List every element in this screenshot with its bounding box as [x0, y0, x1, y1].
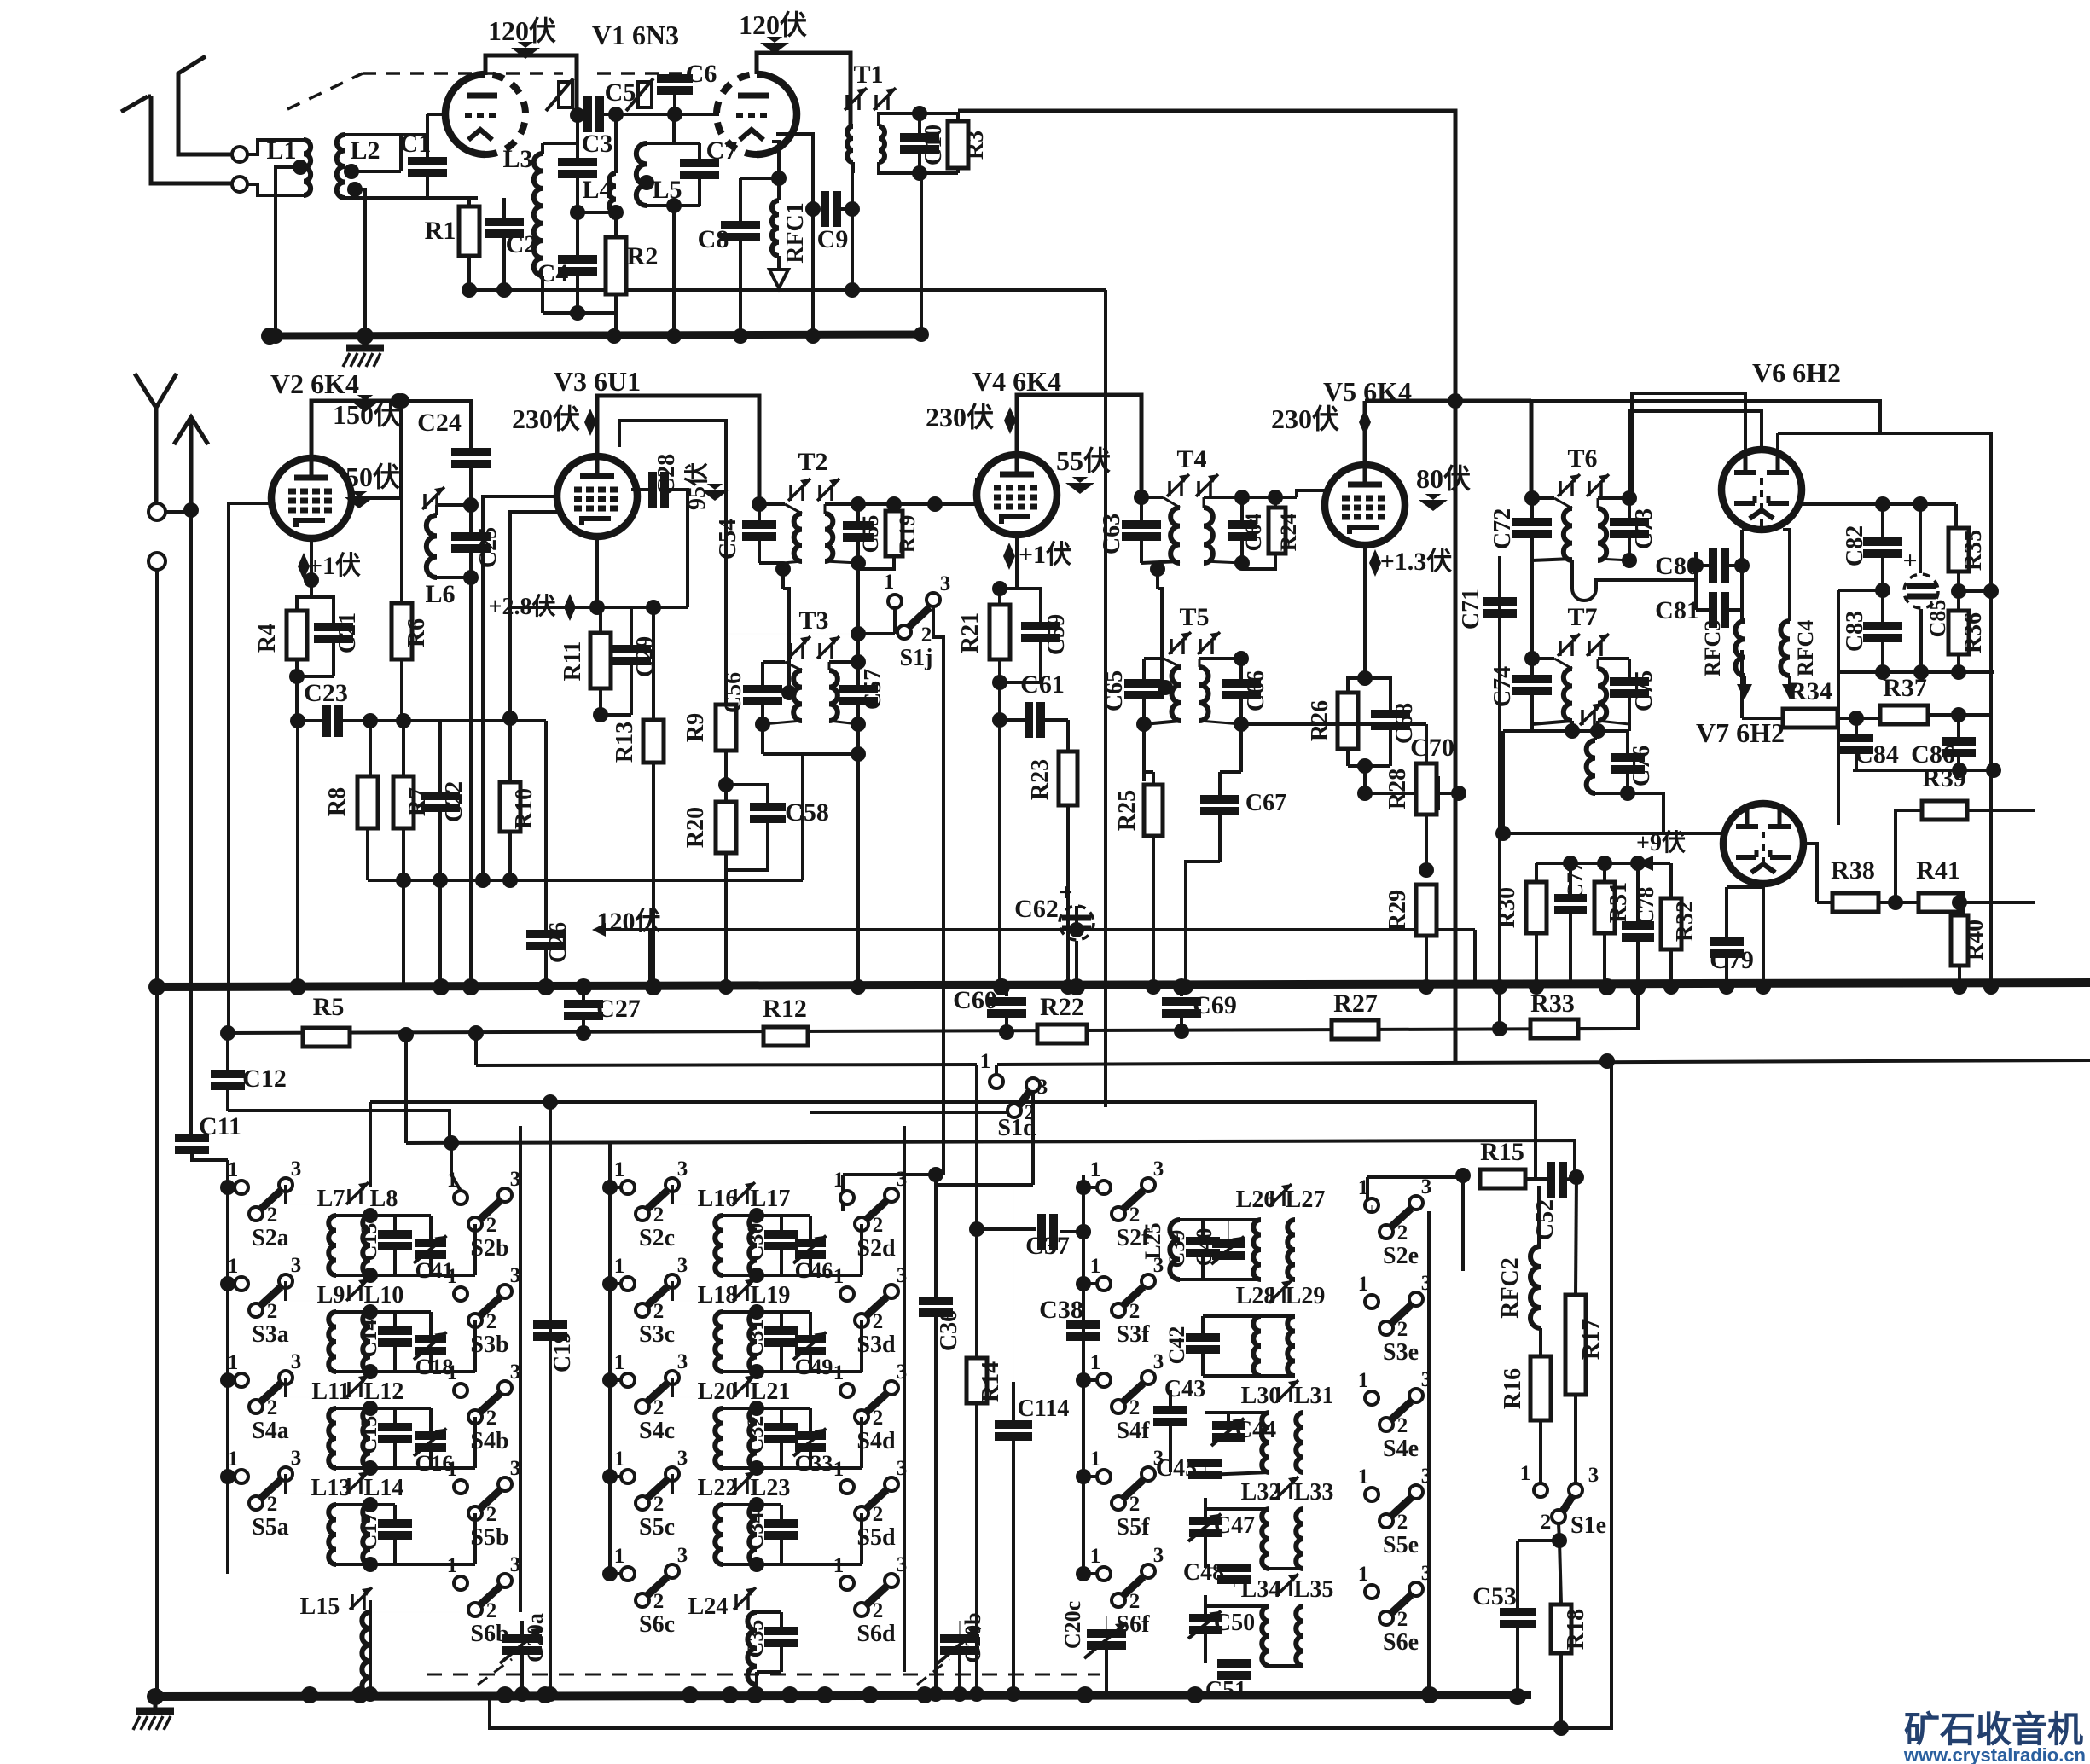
svg-text:C31: C31 — [743, 1320, 768, 1358]
svg-text:C9: C9 — [817, 225, 849, 253]
svg-text:R32: R32 — [1672, 901, 1698, 942]
svg-text:矿石收音机: 矿石收音机 — [1904, 1709, 2083, 1749]
switch S4c — [621, 1373, 635, 1387]
wire R28 column — [1425, 724, 1428, 763]
svg-text:2: 2 — [486, 1214, 497, 1237]
svg-text:R22: R22 — [1040, 993, 1084, 1021]
resistor R16 — [1539, 1328, 1542, 1356]
svg-text:80伏: 80伏 — [1416, 463, 1471, 494]
wire C37 row — [977, 1227, 1036, 1231]
coil L8 — [363, 1216, 370, 1275]
svg-text:2: 2 — [1129, 1590, 1141, 1613]
capacitor C62 electrolytic — [1075, 941, 1078, 987]
svg-text:3: 3 — [291, 1158, 302, 1181]
svg-text:3: 3 — [1037, 1076, 1048, 1099]
wire tank to V7 grid — [1628, 793, 1663, 833]
svg-text:1: 1 — [833, 1554, 845, 1577]
svg-text:R15: R15 — [1480, 1138, 1524, 1166]
svg-text:C20a: C20a — [523, 1613, 548, 1662]
svg-text:L11: L11 — [311, 1378, 350, 1405]
svg-text:S3a: S3a — [252, 1321, 289, 1348]
svg-text:T1: T1 — [853, 61, 883, 89]
svg-text:L7: L7 — [317, 1186, 345, 1212]
svg-text:V6 6H2: V6 6H2 — [1752, 357, 1841, 388]
svg-text:C39: C39 — [1164, 1230, 1189, 1268]
tube V1b 6N3 — [757, 74, 797, 154]
svg-text:T6: T6 — [1567, 444, 1597, 473]
svg-text:3: 3 — [291, 1254, 302, 1277]
wire left block pin bus — [226, 1160, 229, 1574]
T5 capacitor C65 — [1142, 659, 1146, 684]
switch S1j — [858, 632, 895, 635]
capacitor C39 — [1186, 1237, 1220, 1245]
svg-text:R21: R21 — [957, 612, 984, 653]
wire V1b cathode — [772, 142, 779, 178]
svg-text:C81: C81 — [1655, 596, 1699, 624]
capacitor C35 — [757, 1610, 781, 1614]
svg-text:1: 1 — [1358, 1176, 1369, 1199]
wire L2 taps — [355, 189, 365, 336]
capacitor C15 — [370, 1407, 395, 1410]
wire right block right bus — [1427, 1211, 1431, 1694]
coil L17 — [749, 1216, 757, 1275]
capacitor C114 — [1013, 1185, 1014, 1425]
trimmer C20a — [502, 1634, 542, 1643]
capacitor C81 — [1709, 592, 1717, 628]
svg-text:L9: L9 — [317, 1282, 345, 1308]
svg-text:2: 2 — [873, 1214, 884, 1237]
svg-text:2: 2 — [1397, 1511, 1408, 1534]
antenna A1 — [178, 56, 232, 154]
svg-text:L34: L34 — [1241, 1576, 1281, 1603]
capacitor C70 — [1363, 766, 1367, 793]
svg-text:C21: C21 — [334, 612, 361, 653]
resistor R41 — [1919, 893, 1963, 912]
capacitor C2 — [502, 198, 506, 220]
wire y1377 line — [843, 1173, 936, 1176]
svg-text:C64: C64 — [1241, 514, 1266, 552]
svg-text:C20b: C20b — [961, 1612, 985, 1662]
T4 resistor R24 — [1268, 490, 1283, 505]
resistor R23 — [1066, 720, 1070, 751]
svg-text:C1: C1 — [400, 130, 432, 158]
wire T4 sec to V5 grid — [1297, 490, 1325, 497]
coil L14 — [363, 1505, 370, 1564]
svg-text:2: 2 — [1129, 1396, 1141, 1419]
wire T5 bottoms down — [1142, 724, 1146, 781]
svg-text:R13: R13 — [612, 722, 638, 763]
wire V2 cathode — [310, 538, 313, 597]
T5 primary — [1144, 657, 1164, 660]
wire C19 column — [549, 1102, 552, 1694]
switch S3c — [621, 1277, 635, 1291]
trimmer C20c — [1087, 1629, 1126, 1638]
capacitor C34 — [757, 1503, 781, 1506]
svg-text:C49: C49 — [795, 1355, 833, 1379]
svg-text:C62: C62 — [1014, 895, 1059, 923]
svg-text:T4: T4 — [1176, 445, 1206, 473]
wire V4 grid2 — [975, 478, 978, 495]
svg-text:C66: C66 — [1243, 670, 1269, 711]
svg-text:1: 1 — [614, 1255, 625, 1278]
trimmer C49 — [781, 1310, 810, 1314]
svg-text:R36: R36 — [1960, 612, 1987, 653]
svg-text:230伏: 230伏 — [1271, 403, 1339, 434]
svg-text:C50: C50 — [1214, 1610, 1255, 1636]
svg-text:R41: R41 — [1916, 856, 1960, 885]
svg-text:2: 2 — [873, 1310, 884, 1333]
svg-text:1: 1 — [980, 1050, 991, 1073]
svg-text:S5e: S5e — [1383, 1532, 1419, 1558]
svg-text:L32: L32 — [1241, 1479, 1281, 1506]
choke RFC1 — [777, 178, 781, 200]
wire row pins — [284, 1281, 287, 1301]
wire T6 sec top to V6 — [1629, 411, 1762, 498]
svg-text:C70: C70 — [1410, 734, 1454, 762]
svg-text:3: 3 — [677, 1254, 688, 1277]
capacitor C29 — [630, 607, 633, 649]
svg-text:3: 3 — [677, 1350, 688, 1373]
transformer T1 secondary — [879, 126, 885, 162]
bottom ground bus — [155, 1695, 1531, 1697]
wire T7 to V7 column — [1503, 729, 1532, 733]
svg-text:C79: C79 — [1710, 946, 1754, 974]
svg-text:C84: C84 — [1855, 740, 1899, 769]
trimmer C20b — [940, 1634, 979, 1643]
svg-text:50伏: 50伏 — [345, 461, 400, 492]
wire L1 tap to gnd — [276, 167, 300, 336]
capacitor C69 — [1173, 978, 1190, 995]
capacitor C45 — [1188, 1459, 1222, 1467]
svg-text:C3: C3 — [582, 130, 613, 158]
svg-text:R39: R39 — [1922, 764, 1966, 792]
wire R13 column — [646, 600, 661, 615]
AVC line — [228, 1029, 1638, 1033]
svg-text:1: 1 — [833, 1361, 845, 1384]
svg-text:R1: R1 — [425, 217, 456, 245]
jack ring 2 — [148, 553, 165, 570]
svg-text:L18: L18 — [698, 1282, 738, 1308]
svg-text:R14: R14 — [978, 1361, 1004, 1402]
wire cathode return y340 — [469, 288, 1106, 292]
wire R15 row — [1367, 1175, 1463, 1179]
svg-text:R12: R12 — [763, 995, 807, 1023]
svg-text:R2: R2 — [627, 242, 659, 270]
coil L23 — [749, 1505, 757, 1564]
choke RFC4 — [1788, 610, 1791, 621]
wire long top line to right — [958, 111, 1455, 1064]
svg-text:+1伏: +1伏 — [1019, 541, 1071, 569]
capacitor C25 — [451, 532, 491, 541]
switch S2b — [454, 1191, 467, 1204]
svg-text:C77: C77 — [1563, 862, 1588, 900]
resistor R26 — [1348, 678, 1365, 693]
capacitor C59 — [1017, 589, 1041, 627]
svg-text:3: 3 — [1153, 1544, 1164, 1567]
svg-text:C82: C82 — [1842, 525, 1868, 566]
svg-text:L8: L8 — [370, 1186, 398, 1212]
svg-text:C47: C47 — [1214, 1512, 1255, 1539]
jack J1 — [232, 147, 247, 162]
capacitor C85 electrolytic — [1919, 504, 1922, 573]
svg-text:C23: C23 — [304, 679, 348, 707]
svg-text:R28: R28 — [1385, 769, 1411, 809]
svg-text:C11: C11 — [199, 1112, 241, 1140]
wire C84 column — [1849, 711, 1864, 726]
capacitor C50 row5 — [1189, 1614, 1222, 1622]
svg-text:L6: L6 — [425, 580, 455, 608]
T2 capacitor C54 — [758, 504, 761, 525]
dashed gang line — [287, 73, 363, 109]
svg-text:C53: C53 — [1472, 1582, 1517, 1610]
svg-text:L27: L27 — [1286, 1187, 1326, 1213]
tube V1a 6N3 — [445, 74, 485, 154]
switch S4d — [840, 1384, 854, 1397]
svg-text:2: 2 — [486, 1599, 497, 1622]
svg-text:C24: C24 — [417, 409, 462, 437]
svg-text:C10: C10 — [920, 125, 947, 165]
resistor R29 — [1416, 885, 1437, 936]
svg-text:1: 1 — [1358, 1369, 1369, 1392]
svg-text:1: 1 — [1358, 1465, 1369, 1488]
wire to V2 grid — [227, 510, 230, 1033]
trimmer C44 — [1212, 1421, 1245, 1430]
svg-text:R33: R33 — [1530, 989, 1575, 1018]
svg-text:C52: C52 — [1532, 1199, 1559, 1240]
switch S5f — [1097, 1470, 1111, 1483]
wire V5 plate top — [1363, 401, 1367, 465]
svg-text:55伏: 55伏 — [1056, 445, 1111, 476]
wire S1j to matrix — [933, 606, 943, 1175]
trimmer C40 — [1212, 1239, 1245, 1248]
svg-text:2: 2 — [653, 1590, 665, 1613]
svg-text:RFC3: RFC3 — [1700, 620, 1725, 676]
resistor R18 — [1559, 1541, 1561, 1604]
svg-text:L13: L13 — [311, 1475, 351, 1501]
svg-text:S6e: S6e — [1383, 1629, 1419, 1656]
wire row pins — [671, 1474, 674, 1494]
capacitor C4 — [558, 255, 597, 264]
svg-text:1: 1 — [1090, 1158, 1101, 1181]
svg-text:C27: C27 — [596, 995, 641, 1023]
svg-text:R31: R31 — [1605, 882, 1632, 923]
svg-text:120伏: 120伏 — [488, 15, 556, 46]
wire R28 top from T5 sec — [1241, 722, 1426, 726]
wire V5 cathode — [1363, 545, 1367, 678]
capacitor C19 — [533, 1320, 567, 1329]
svg-text:V3 6U1: V3 6U1 — [554, 366, 641, 397]
svg-text:C26: C26 — [545, 922, 572, 963]
capacitor C80 — [1694, 552, 1698, 580]
svg-text:S3f: S3f — [1117, 1321, 1151, 1348]
resistor R11 — [590, 633, 611, 688]
resistor R7 — [393, 776, 414, 828]
antenna A2 whip — [135, 374, 156, 504]
capacitor C83 — [1881, 590, 1884, 626]
capacitor C58 — [726, 785, 768, 807]
capacitor C8 — [740, 177, 779, 180]
svg-text:+: + — [1902, 547, 1917, 575]
tube V7 6H2 — [1723, 804, 1803, 884]
capacitor C27 — [582, 987, 585, 1004]
tube V5 6K4 — [1325, 465, 1405, 545]
ground bottom — [154, 1699, 158, 1711]
capacitor C11 — [190, 510, 192, 1138]
svg-text:R40: R40 — [1962, 920, 1988, 960]
svg-text:C40: C40 — [1192, 1228, 1216, 1267]
tube V4 6K4 — [977, 455, 1057, 535]
wire left rows to bus3 — [369, 1612, 371, 1694]
svg-text:L29: L29 — [1286, 1283, 1326, 1309]
svg-text:C46: C46 — [795, 1258, 833, 1283]
capacitor C30 — [757, 1214, 781, 1217]
wire ground bus top stage — [267, 334, 927, 336]
svg-text:L28: L28 — [1236, 1283, 1276, 1309]
svg-text:C45: C45 — [1156, 1455, 1197, 1482]
label +1.3V — [1369, 549, 1381, 577]
wire S1j feedback — [726, 633, 860, 635]
resistor R8 — [357, 776, 378, 828]
svg-text:C12: C12 — [242, 1065, 287, 1093]
svg-text:2: 2 — [873, 1503, 884, 1526]
svg-text:2: 2 — [1129, 1493, 1141, 1516]
svg-text:3: 3 — [677, 1447, 688, 1470]
svg-text:R30: R30 — [1494, 887, 1520, 928]
svg-text:S5a: S5a — [252, 1514, 289, 1541]
svg-text:1: 1 — [1358, 1563, 1369, 1586]
svg-text:2: 2 — [267, 1300, 278, 1323]
capacitor C5 — [583, 96, 592, 132]
svg-text:L33: L33 — [1294, 1479, 1334, 1506]
svg-text:R8: R8 — [324, 787, 351, 816]
resistor R9 — [716, 705, 736, 751]
switch S5e — [1365, 1488, 1379, 1501]
svg-text:R4: R4 — [254, 624, 281, 653]
svg-text:V7 6H2: V7 6H2 — [1696, 717, 1785, 748]
coil L19 — [749, 1312, 757, 1372]
wire B+ tap into T3 — [783, 589, 789, 693]
svg-text:2: 2 — [1129, 1204, 1141, 1227]
svg-text:2: 2 — [653, 1204, 665, 1227]
svg-text:V2 6K4: V2 6K4 — [270, 368, 359, 399]
coil L21 — [749, 1408, 757, 1468]
svg-text:C59: C59 — [1043, 614, 1070, 655]
resistor R12 — [763, 1027, 808, 1046]
resistor R30 — [1536, 862, 1605, 865]
svg-text:120伏: 120伏 — [739, 9, 807, 40]
T3 capacitor C56 — [761, 662, 764, 690]
wire V5 plate rail to T6 — [1530, 401, 1534, 498]
switch S6f — [1097, 1567, 1111, 1581]
capacitor C14 — [370, 1310, 395, 1314]
svg-text:R9: R9 — [682, 713, 709, 742]
svg-text:C58: C58 — [785, 798, 829, 827]
svg-text:S4f: S4f — [1117, 1418, 1151, 1444]
svg-text:RFC2: RFC2 — [1497, 1257, 1524, 1319]
choke RFC3 — [1740, 610, 1744, 621]
svg-text:1: 1 — [447, 1554, 458, 1577]
svg-text:2: 2 — [267, 1493, 278, 1516]
svg-text:2: 2 — [1129, 1300, 1141, 1323]
svg-text:C60: C60 — [953, 986, 997, 1014]
resistor R38 — [1832, 893, 1878, 912]
svg-text:2: 2 — [653, 1493, 665, 1516]
svg-text:C83: C83 — [1842, 611, 1868, 652]
wire cathode return line — [368, 879, 803, 882]
svg-text:R16: R16 — [1500, 1368, 1526, 1409]
trimmer C18 — [395, 1310, 431, 1314]
svg-text:1: 1 — [614, 1448, 625, 1471]
T5 capacitor C66 — [1239, 659, 1243, 684]
ground — [363, 336, 368, 348]
svg-text:S6d: S6d — [856, 1621, 896, 1647]
svg-text:L20: L20 — [698, 1378, 738, 1405]
capacitor C84 — [1855, 718, 1858, 739]
wire C26 column — [369, 719, 372, 722]
svg-text:R10: R10 — [511, 788, 537, 829]
svg-text:RFC1: RFC1 — [782, 202, 809, 264]
capacitor C24 — [398, 401, 471, 451]
wire V3 plate — [597, 396, 759, 504]
wire x1758 column — [1498, 556, 1501, 1032]
T2 capacitor C55 — [851, 496, 866, 512]
svg-text:R3: R3 — [962, 131, 989, 160]
coil L12 — [363, 1408, 370, 1468]
resistor R4 — [297, 597, 311, 611]
resistor R1 — [467, 198, 471, 206]
coil L4 — [614, 114, 618, 173]
resistor R40 — [1958, 902, 1961, 915]
resistor R36 — [1957, 572, 1960, 611]
trimmer C16 — [395, 1407, 431, 1410]
svg-text:C30: C30 — [743, 1223, 768, 1262]
svg-text:2: 2 — [1397, 1608, 1408, 1631]
wire V3 screen line — [619, 421, 726, 705]
switch S2f — [1097, 1181, 1111, 1194]
capacitor C60 — [993, 978, 1010, 995]
svg-text:R6: R6 — [403, 618, 430, 647]
tube V6 6H2 — [1721, 450, 1802, 530]
switch S3e — [1365, 1295, 1379, 1308]
capacitor C28 — [631, 488, 650, 491]
switch S6d — [840, 1576, 854, 1590]
T5 secondary — [1199, 667, 1209, 721]
svg-text:+1.3伏: +1.3伏 — [1380, 548, 1453, 576]
switch S1e — [1534, 1483, 1547, 1497]
svg-text:C22: C22 — [441, 781, 467, 822]
svg-text:2: 2 — [873, 1407, 884, 1430]
svg-text:3: 3 — [1153, 1158, 1164, 1181]
wire row pins — [671, 1185, 674, 1204]
svg-text:1: 1 — [1520, 1462, 1531, 1485]
svg-text:2: 2 — [486, 1407, 497, 1430]
svg-text:C75: C75 — [1631, 670, 1657, 711]
capacitor C12 — [211, 1070, 245, 1078]
svg-text:C15: C15 — [357, 1416, 381, 1454]
svg-text:1: 1 — [614, 1545, 625, 1568]
wire V6 plates top — [1632, 393, 1745, 498]
T4 capacitor C64 — [1240, 497, 1244, 525]
resistor R35 — [1954, 504, 1958, 528]
svg-text:S2c: S2c — [639, 1225, 675, 1251]
resistor R14 — [975, 1229, 978, 1358]
svg-text:R18: R18 — [1563, 1609, 1589, 1650]
resistor R34 — [1783, 709, 1837, 728]
wire lower distribution line y1248 left — [476, 1065, 977, 1065]
switch S6e — [1365, 1585, 1379, 1599]
label +1V — [298, 553, 310, 580]
svg-text:+: + — [1058, 879, 1072, 907]
